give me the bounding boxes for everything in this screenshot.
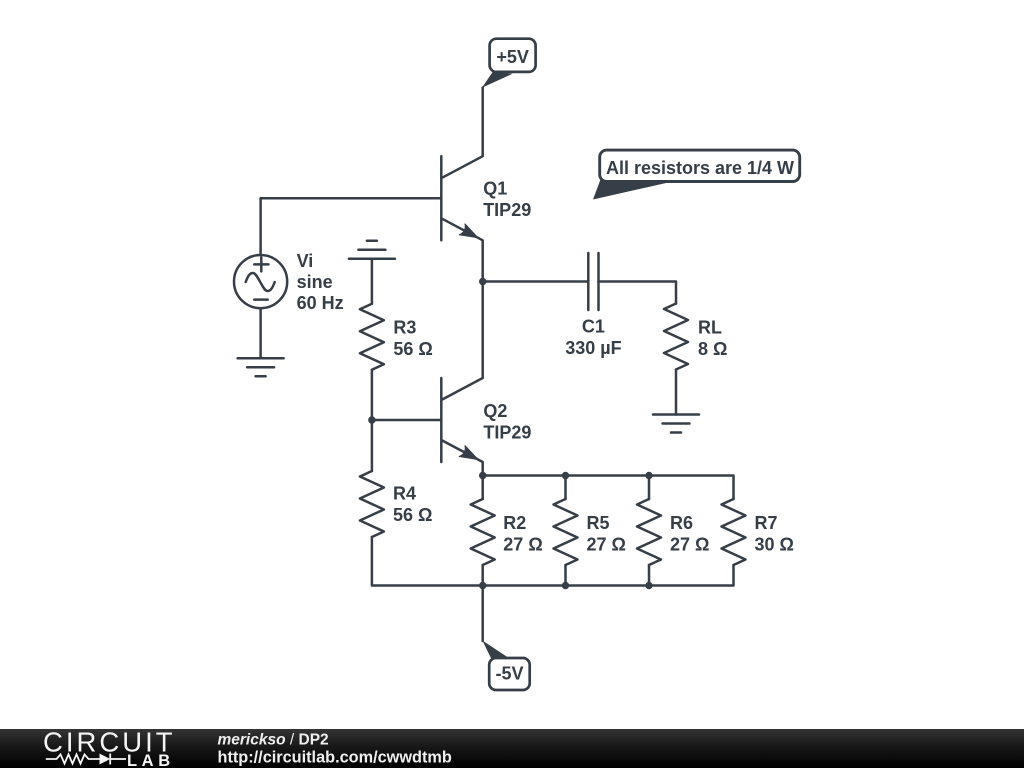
svg-text:27 Ω: 27 Ω — [670, 535, 709, 555]
svg-text:-5V: -5V — [495, 664, 523, 684]
svg-text:56 Ω: 56 Ω — [393, 505, 432, 525]
svg-text:+5V: +5V — [496, 47, 529, 67]
svg-text:LAB: LAB — [127, 752, 175, 768]
svg-text:56 Ω: 56 Ω — [393, 339, 432, 359]
svg-text:R5: R5 — [587, 513, 610, 533]
svg-text:Q1: Q1 — [483, 179, 507, 199]
svg-text:TIP29: TIP29 — [483, 423, 531, 443]
svg-text:C1: C1 — [582, 317, 605, 337]
svg-text:http://circuitlab.com/cwwdtmb: http://circuitlab.com/cwwdtmb — [218, 749, 452, 767]
svg-text:60 Hz: 60 Hz — [297, 293, 344, 313]
svg-text:R6: R6 — [670, 513, 693, 533]
svg-text:merickso / DP2: merickso / DP2 — [218, 732, 329, 749]
svg-text:All resistors are 1/4 W: All resistors are 1/4 W — [606, 158, 794, 178]
svg-text:R2: R2 — [503, 513, 526, 533]
svg-text:8 Ω: 8 Ω — [698, 339, 727, 359]
svg-text:Vi: Vi — [297, 251, 314, 271]
svg-text:sine: sine — [297, 272, 333, 292]
svg-text:R3: R3 — [393, 318, 416, 338]
svg-text:R7: R7 — [755, 513, 778, 533]
svg-text:27 Ω: 27 Ω — [503, 535, 542, 555]
svg-text:27 Ω: 27 Ω — [587, 535, 626, 555]
svg-text:R4: R4 — [393, 484, 416, 504]
svg-text:30 Ω: 30 Ω — [755, 535, 794, 555]
svg-text:TIP29: TIP29 — [483, 200, 531, 220]
svg-text:RL: RL — [698, 318, 722, 338]
svg-text:Q2: Q2 — [483, 401, 507, 421]
svg-text:330 µF: 330 µF — [565, 338, 621, 358]
